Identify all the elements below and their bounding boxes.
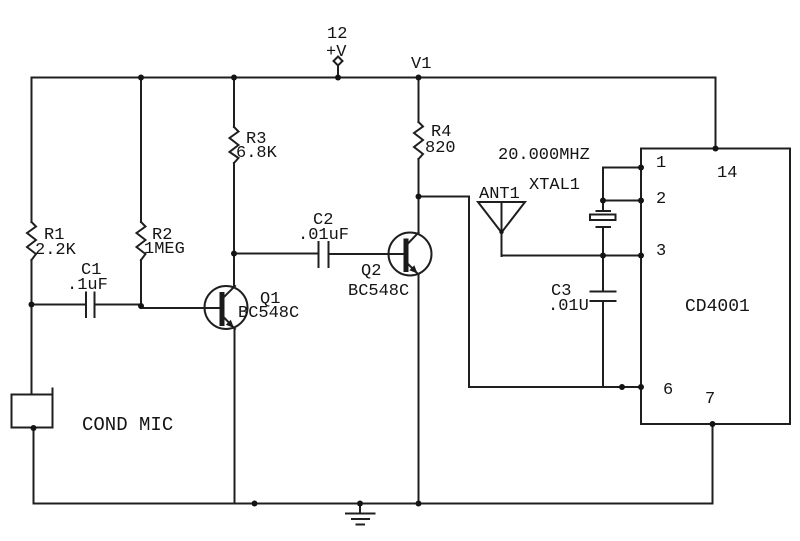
svg-text:7: 7: [705, 390, 715, 409]
node junction C1 left: [29, 302, 35, 308]
wire C3 top stem: [602, 256, 604, 292]
resistor R1: [27, 222, 36, 260]
svg-text:20.000MHZ: 20.000MHZ: [498, 146, 590, 165]
svg-text:2: 2: [656, 190, 666, 209]
svg-text:Q2: Q2: [361, 262, 381, 281]
wire pin3 row: [502, 255, 642, 257]
wire node V1 to feedback column: [419, 196, 470, 198]
wire feedback column down: [468, 197, 470, 388]
svg-text:.01uF: .01uF: [298, 226, 349, 245]
svg-text:2.2K: 2.2K: [35, 241, 77, 260]
node junction pin3: [638, 253, 644, 259]
wire R4 bottom to Q2 collector: [418, 159, 420, 233]
wire pin1 row: [603, 167, 641, 169]
svg-text:V1: V1: [411, 55, 431, 74]
svg-text:1MEG: 1MEG: [144, 240, 185, 259]
svg-text:COND MIC: COND MIC: [82, 414, 173, 436]
antenna ANT1: [478, 202, 525, 256]
svg-text:12: 12: [327, 25, 347, 44]
node junction V1: [416, 75, 422, 81]
wire top rail +V: [32, 77, 716, 79]
wire pin14 drop: [715, 78, 717, 149]
wire C2 left from R3 junction: [234, 253, 319, 255]
node junction V1 lower: [416, 194, 422, 200]
resistor R2: [137, 222, 146, 260]
wire left rail lower: [31, 260, 33, 395]
transistor Q2: [389, 233, 432, 276]
resistor R4: [414, 122, 423, 159]
wire R3 top: [233, 78, 235, 128]
wire C3 bottom stem: [602, 301, 604, 387]
svg-text:14: 14: [717, 164, 737, 183]
svg-text:BC548C: BC548C: [348, 282, 409, 301]
node junction top/R3: [231, 75, 237, 81]
crystal XTAL1: [590, 211, 616, 227]
power +V symbol: [334, 57, 343, 78]
svg-text:1: 1: [656, 154, 666, 173]
wire pin6 row: [469, 386, 641, 388]
wire R2 top: [140, 78, 142, 223]
wire left rail upper: [31, 78, 33, 223]
condenser mic COND MIC: [12, 389, 53, 428]
ground symbol: [346, 504, 375, 525]
wire C2 to Q2 base: [329, 253, 405, 255]
node junction crystal pin2: [600, 198, 606, 204]
wire C1 to R2 node: [95, 304, 142, 306]
svg-text:820: 820: [425, 139, 456, 158]
svg-text:.01U: .01U: [548, 297, 589, 316]
capacitor C1: [86, 293, 95, 318]
svg-text:ANT1: ANT1: [479, 185, 520, 204]
node junction C1/R2: [138, 303, 144, 309]
capacitor C2: [319, 242, 329, 267]
wire C1 left: [32, 304, 87, 306]
node junction ground: [357, 501, 363, 507]
node junction top/power: [335, 75, 341, 81]
wire R3 bottom to Q1 collector: [233, 163, 235, 287]
node junction mic bottom: [31, 425, 37, 431]
node junction Q2 emitter bottom: [416, 501, 422, 507]
node junction pin14: [713, 146, 719, 152]
node junction pin7: [710, 421, 716, 427]
IC U1 CD4001 box: [641, 149, 790, 425]
wire crystal bottom stem: [602, 227, 604, 256]
svg-text:XTAL1: XTAL1: [529, 176, 580, 195]
node junction pin6: [638, 384, 644, 390]
wire Q2 emitter down: [418, 275, 420, 504]
wire Q1 emitter down: [234, 329, 236, 504]
node junction top/R2: [138, 75, 144, 81]
svg-text:6: 6: [663, 381, 673, 400]
node junction pin1: [638, 165, 644, 171]
wire R2 node to Q1 base: [141, 307, 220, 309]
node junction pin6 stray: [619, 384, 625, 390]
node junction R3/C2: [231, 251, 237, 257]
wire bottom rail ground: [34, 503, 713, 505]
svg-text:.1uF: .1uF: [67, 276, 108, 295]
wire V1 top: [418, 78, 420, 123]
wire pin2 row: [603, 200, 641, 202]
wire pin7 drop: [712, 424, 714, 504]
svg-text:CD4001: CD4001: [685, 297, 750, 317]
capacitor C3: [591, 292, 616, 302]
transistor Q1: [205, 286, 248, 329]
node junction bottom stray: [252, 501, 258, 507]
svg-text:BC548C: BC548C: [238, 304, 299, 323]
node junction pin2: [638, 198, 644, 204]
wire mic bottom lead: [33, 428, 35, 504]
resistor R3: [230, 127, 239, 163]
wire crystal top stem: [602, 168, 604, 212]
svg-text:6.8K: 6.8K: [236, 144, 278, 163]
node junction crystal pin3: [600, 253, 606, 259]
node junction antenna apex: [499, 230, 503, 234]
svg-text:3: 3: [656, 242, 666, 261]
wire R2 bottom: [140, 260, 142, 306]
svg-text:+V: +V: [326, 43, 347, 62]
